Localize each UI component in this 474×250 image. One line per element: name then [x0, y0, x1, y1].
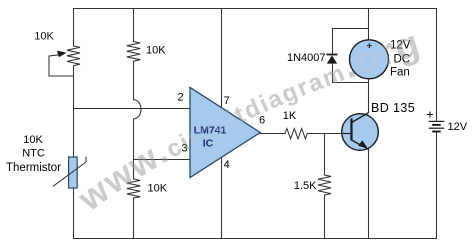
wire op-amp output [260, 133, 285, 135]
watermark overlay pass [71, 22, 427, 219]
potentiometer wiper arrowhead [57, 51, 67, 58]
svg-text:10K: 10K [34, 31, 54, 43]
wire bottom rail [74, 238, 437, 240]
battery plus mark [427, 112, 433, 118]
wire divider column mid [133, 61, 135, 99]
svg-text:NTC: NTC [22, 148, 45, 160]
wire output to base [307, 133, 342, 135]
wire top rail [74, 8, 437, 10]
svg-text:Thermistor: Thermistor [6, 162, 61, 174]
battery B1 plate short top [432, 124, 441, 126]
thermistor strike line [53, 157, 86, 187]
wire divider column lower [133, 119, 135, 179]
svg-text:BD 135: BD 135 [371, 101, 415, 115]
transistor base wire inside body [341, 133, 351, 135]
svg-text:10K: 10K [23, 134, 43, 146]
transistor emitter arrowhead [358, 140, 367, 148]
svg-text:12V: 12V [448, 121, 468, 133]
wire right rail above battery [436, 9, 438, 122]
wire pin3 (non-inverting input) [134, 159, 191, 161]
battery B1 plate long bottom [429, 127, 445, 129]
transistor Q1 body circle [342, 114, 379, 151]
fan plus mark [367, 43, 372, 48]
svg-text:1K: 1K [283, 110, 297, 122]
wire left rail middle [73, 66, 75, 239]
battery B1 plate short bottom [432, 131, 441, 133]
wire left rail top [73, 9, 75, 47]
wire diode loop bottom [333, 64, 369, 83]
potentiometer wiper wire [49, 55, 74, 76]
svg-text:4: 4 [224, 159, 230, 171]
resistor 1.5K zigzag [318, 175, 331, 195]
svg-text:1N4007: 1N4007 [287, 52, 326, 64]
transistor collector line [352, 113, 369, 123]
svg-text:2: 2 [177, 92, 183, 104]
wire emitter to bottom rail [368, 150, 370, 239]
resistor 10K bottom divider zigzag [127, 179, 140, 198]
resistor 1K zigzag [285, 129, 307, 139]
wire pin7 supply [221, 9, 223, 109]
svg-text:10K: 10K [148, 183, 168, 195]
wire right rail below battery [436, 132, 438, 238]
wire fan top [368, 9, 370, 41]
diode D1 triangle [327, 55, 337, 63]
wire pin4 supply [221, 158, 223, 239]
wire pin2 (inverting input) [74, 108, 191, 110]
fan M1 circle [350, 40, 389, 79]
wire 1.5K to bottom rail [324, 195, 326, 239]
wire fan bottom to collector [368, 79, 370, 113]
transistor emitter line [352, 140, 369, 149]
wire base junction to 1.5K [324, 134, 326, 176]
svg-text:10K: 10K [146, 45, 166, 57]
thermistor body [69, 157, 78, 188]
svg-text:7: 7 [224, 95, 230, 107]
wire divider column bottom [133, 198, 135, 239]
resistor 10K top divider zigzag [127, 42, 140, 62]
battery B1 plate long top [429, 120, 445, 122]
potentiometer R1 10K zigzag [67, 46, 80, 66]
transistor base bar [350, 119, 352, 141]
wire hop over pin2 wire [134, 100, 142, 120]
svg-text:1.5K: 1.5K [294, 180, 317, 192]
op-amp U1 LM741 triangle [190, 88, 260, 178]
wire divider column top [133, 9, 135, 42]
diode D1 cathode bar [327, 54, 338, 56]
wire diode loop top [333, 29, 369, 56]
